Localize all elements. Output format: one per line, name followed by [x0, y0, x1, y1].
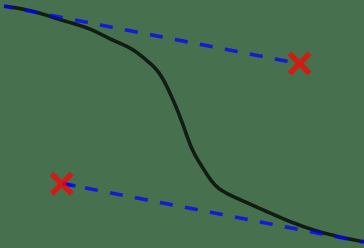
- tangent line 2 first dash extension: [63, 184, 76, 186]
- X marker 2 (red, lower left): [52, 174, 72, 194]
- tangent line 2 (blue dashed, lower): [63, 184, 364, 243]
- X marker 1 (red, upper right): [290, 54, 310, 74]
- tangent line 1 (blue dashed, upper): [4, 6, 288, 61]
